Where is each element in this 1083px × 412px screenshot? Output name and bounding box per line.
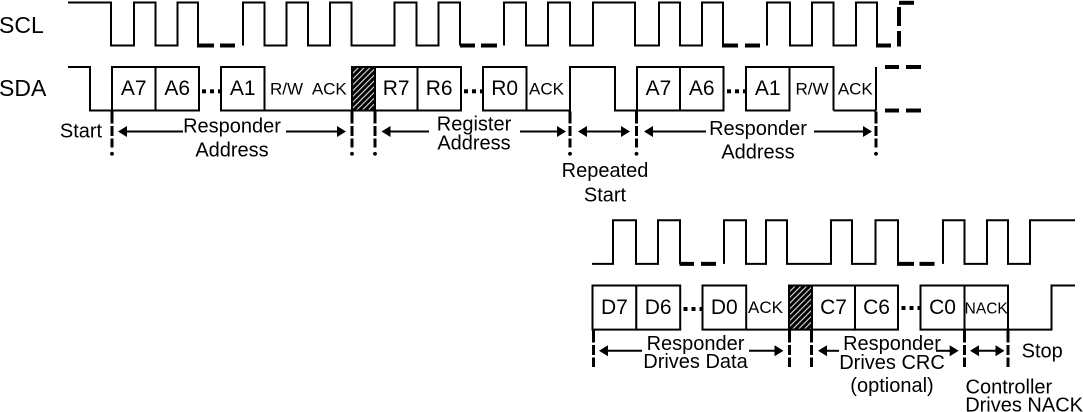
svg-text:R0: R0: [491, 77, 518, 100]
bit box R6: [418, 67, 462, 111]
svg-text:Address: Address: [195, 139, 268, 161]
node marker hatch2 left: [788, 331, 791, 368]
svg-text:Address: Address: [721, 141, 794, 163]
arrow responder address right: [286, 131, 338, 133]
arrow responder address 2 right: [814, 131, 864, 133]
node marker hatch right: [374, 112, 377, 148]
node marker NACK left: [963, 331, 966, 368]
bit box C7: [812, 286, 855, 330]
arrow responder address left: [118, 126, 127, 137]
bit box A1: [221, 67, 265, 111]
bit box A1 second: [746, 67, 790, 111]
wire SDA low during register ACK then repeated start pulse: [527, 67, 638, 111]
arrow responder drives data left: [599, 345, 608, 356]
bit box A7 second: [637, 67, 680, 111]
node marker repeated start end: [635, 112, 638, 148]
arrow responder drives crc right: [936, 350, 951, 352]
node marker hatch2 right: [810, 331, 813, 368]
svg-text:ACK: ACK: [838, 80, 874, 99]
svg-text:ACK: ACK: [529, 80, 565, 99]
ellipsis dots between C6 and C0: [902, 306, 906, 310]
svg-text:ACK: ACK: [312, 80, 348, 99]
wire SDA stop condition: [1008, 286, 1075, 330]
svg-text:ACK: ACK: [748, 298, 784, 317]
arrow repeated start double: [578, 126, 587, 137]
svg-text:A1: A1: [755, 77, 781, 100]
svg-text:Start: Start: [60, 121, 103, 143]
wire SCL clock waveform row1: [68, 3, 877, 46]
svg-text:R7: R7: [383, 77, 410, 100]
ellipsis dots between A6 and A1: [202, 89, 206, 93]
svg-text:A7: A7: [646, 77, 672, 100]
node marker responder address 2 end: [875, 112, 878, 148]
svg-text:Drives NACK: Drives NACK: [965, 395, 1083, 412]
bit box R7: [375, 67, 418, 111]
svg-text:C0: C0: [929, 296, 956, 319]
wire SDA high during R/W read bit: [790, 67, 834, 111]
bit box D0: [703, 286, 747, 330]
wire SCL row1 dashed vertical continuation edge: [897, 7, 901, 47]
svg-text:Repeated: Repeated: [562, 160, 649, 182]
wire SDA waveform row1: start condition: [68, 67, 112, 111]
svg-text:SDA: SDA: [0, 75, 47, 101]
wire SCL row2 ellipsis dashes (low level): [680, 262, 935, 266]
ellipsis dots between D6 and D0: [684, 307, 688, 311]
bit box A6 second: [680, 67, 724, 111]
arrow responder address 2 left: [644, 126, 653, 137]
node marker NACK right: [1007, 331, 1010, 368]
wire SCL row1 ellipsis dashes (low level): [197, 44, 891, 48]
wire SDA low during data ACK: [746, 329, 789, 331]
node marker hatch left: [351, 112, 354, 148]
svg-text:C7: C7: [820, 296, 847, 319]
svg-text:Drives CRC: Drives CRC: [839, 352, 945, 374]
svg-text:C6: C6: [863, 296, 890, 319]
wire SDA low during R/W and ACK bits: [265, 110, 353, 112]
arrow responder drives data right: [749, 350, 775, 352]
bit box D6: [636, 286, 680, 330]
svg-text:D7: D7: [601, 296, 628, 319]
svg-text:Responder: Responder: [709, 118, 807, 140]
svg-text:Start: Start: [584, 184, 627, 206]
svg-text:Responder: Responder: [183, 116, 281, 138]
node marker D7 start: [592, 331, 595, 368]
svg-text:A6: A6: [164, 77, 190, 100]
bit box A6: [156, 67, 200, 111]
bit box C6: [855, 286, 898, 330]
svg-text:A6: A6: [689, 77, 715, 100]
svg-text:R/W: R/W: [795, 80, 828, 99]
svg-text:D6: D6: [645, 296, 672, 319]
wire SCL row1 continuation dash (high level, top right): [899, 1, 914, 5]
bit box NACK: [965, 286, 1009, 330]
svg-text:A7: A7: [121, 77, 147, 100]
svg-text:NACK: NACK: [965, 301, 1009, 318]
wire SDA row1 continuation dashes: [885, 67, 921, 111]
node ACK end boundary: [875, 67, 877, 111]
node marker repeated start rise: [569, 112, 572, 148]
svg-text:D0: D0: [711, 296, 738, 319]
arrow controller drives nack double: [970, 345, 979, 356]
svg-text:R6: R6: [426, 77, 453, 100]
bit box R0: [483, 67, 527, 111]
wire SCL clock waveform row2: [592, 220, 1075, 264]
arrow responder drives crc left: [818, 345, 827, 356]
svg-text:Drives Data: Drives Data: [643, 351, 748, 373]
svg-text:A1: A1: [230, 77, 256, 100]
wire SDA low during ACK third: [834, 110, 877, 112]
node marker Start: [111, 112, 114, 148]
bit box D7: [593, 286, 637, 330]
svg-text:Stop: Stop: [1022, 340, 1063, 362]
svg-text:Address: Address: [437, 132, 510, 154]
svg-text:SCL: SCL: [0, 12, 44, 38]
svg-text:R/W: R/W: [270, 80, 303, 99]
bit box C0: [921, 286, 965, 330]
svg-text:(optional): (optional): [850, 375, 933, 397]
bit box A7: [112, 67, 156, 111]
arrow register address left: [382, 126, 391, 137]
arrow register address right: [520, 131, 558, 133]
hatched handoff box (responder takes bus): [352, 67, 375, 111]
ellipsis dots between R6 and R0: [464, 89, 468, 93]
hatched handoff box row2: [789, 286, 812, 330]
ellipsis dots between A6 and A1 second: [727, 89, 731, 93]
